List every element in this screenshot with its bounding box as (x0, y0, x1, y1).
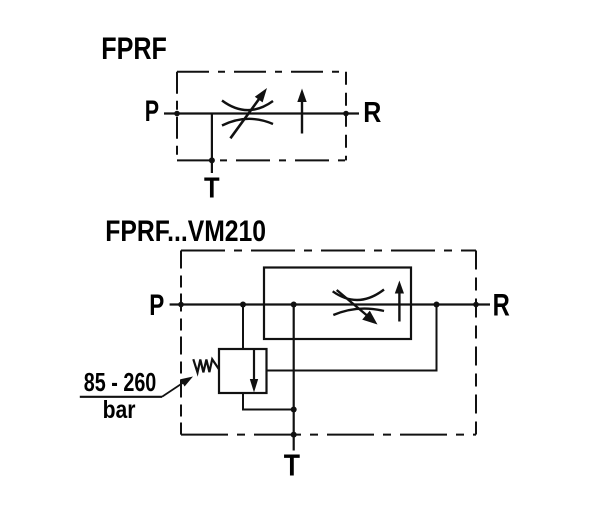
junction dot drain x T line (291, 407, 297, 413)
envelope left border (180, 251, 182, 435)
envelope right border (475, 251, 477, 435)
junction dot T drop (291, 302, 297, 308)
wire feedback from relief valve to R line (267, 305, 437, 371)
throttle venturi bottom arc (222, 119, 273, 126)
envelope (dash-dot box) top border (181, 250, 476, 252)
junction dot feedback riser (434, 302, 440, 308)
throttle venturi bottom arc (regulator) (333, 309, 384, 315)
junction dot at bottom border x T line (291, 432, 297, 438)
wire to T port (211, 114, 213, 174)
wire pilot drop to relief valve (242, 305, 244, 350)
relief valve internal arrow (down) (253, 349, 255, 381)
wire P to R (main line) (164, 112, 359, 114)
flow regulator sub-box (264, 268, 411, 340)
svg-text:FPRF: FPRF (101, 30, 167, 66)
junction dot at right border x P line (343, 111, 349, 117)
valve envelope right border (345, 72, 347, 161)
label underline (80, 396, 162, 398)
valve envelope bottom border (177, 159, 346, 161)
svg-text:R: R (493, 287, 510, 323)
svg-text:P: P (145, 95, 159, 128)
free flow arrow (vertical up, regulator) (398, 291, 400, 322)
envelope bottom border (181, 434, 476, 436)
wire T drop (293, 305, 295, 451)
free flow arrow (vertical up) (301, 98, 303, 134)
throttle venturi top arc (regulator) (333, 290, 384, 300)
wire relief drain to T line (243, 393, 294, 410)
leader line to spring (162, 381, 186, 397)
leader arrowhead (180, 377, 193, 387)
relief valve box (219, 349, 267, 393)
spring (relief valve setting) (193, 359, 219, 372)
adjustability arrow (diagonal, up-right) (230, 97, 260, 138)
svg-text:T: T (284, 447, 300, 482)
svg-text:FPRF...VM210: FPRF...VM210 (105, 215, 266, 248)
svg-text:bar: bar (103, 396, 136, 424)
junction dot at left border x P line (174, 111, 180, 117)
svg-text:R: R (363, 97, 381, 129)
junction dot at bottom border x T line (209, 157, 215, 163)
adjustability arrow (diagonal, down-right) (337, 290, 367, 316)
valve envelope left border (176, 72, 178, 161)
svg-text:P: P (149, 289, 164, 322)
svg-text:T: T (204, 172, 220, 204)
wire P to R (main line) (170, 303, 490, 305)
junction dot at left border x P line (178, 302, 184, 308)
svg-text:85 - 260: 85 - 260 (84, 369, 157, 397)
valve envelope (dash-dot box) top border (177, 71, 346, 73)
junction dot pilot drop (240, 302, 246, 308)
throttle venturi top arc (222, 101, 273, 111)
junction dot at right border x P line (473, 302, 479, 308)
